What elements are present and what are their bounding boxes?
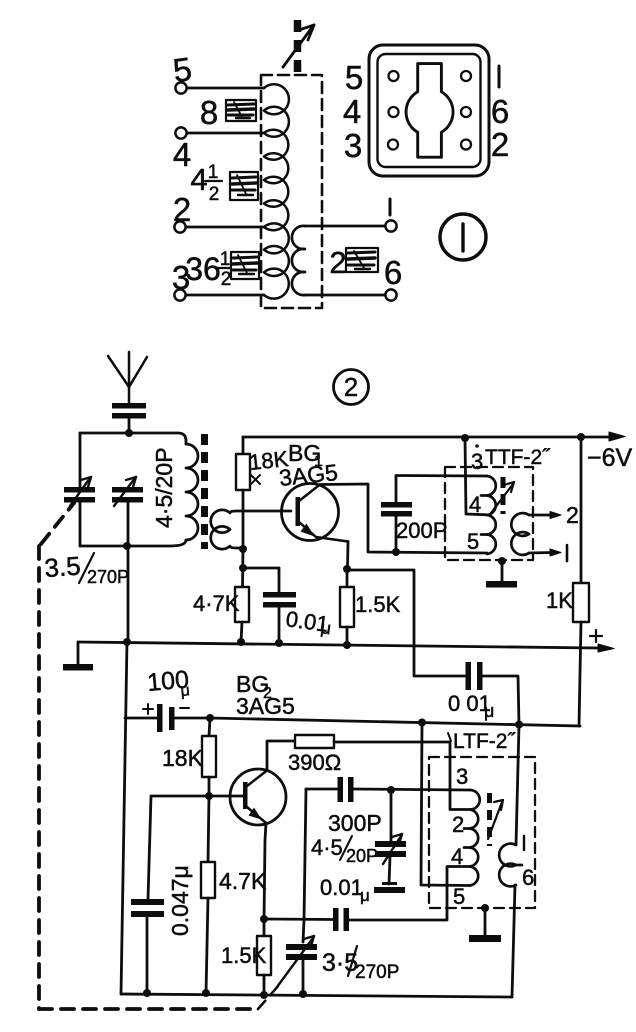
socket pin hole 5	[389, 71, 399, 81]
node 200P bottom / collector line	[392, 548, 400, 556]
polarity marks 100u	[143, 704, 189, 714]
svg-text:0.01: 0.01	[320, 875, 363, 900]
connector socket outer body	[369, 45, 489, 176]
LTF core dashed	[487, 793, 492, 846]
svg-text:270P: 270P	[355, 962, 399, 983]
winding count 8 turns	[200, 94, 218, 131]
svg-text:5: 5	[453, 884, 465, 909]
resistor 390 ohm	[295, 735, 334, 748]
variable capacitor 4.5/20P (gang a trimmer)	[112, 487, 143, 503]
label 4.7K (BG2)	[219, 868, 267, 894]
node secondary bottom to 18K	[239, 545, 247, 553]
svg-text:4·5: 4·5	[311, 835, 343, 860]
svg-text:2: 2	[209, 184, 220, 205]
label 3AG5 (BG2)	[236, 693, 295, 719]
figure number 1 circled	[440, 214, 486, 260]
node -6V to TTF	[461, 434, 469, 442]
label 2 (TTF tap)	[566, 502, 579, 528]
label TTF-2	[485, 446, 551, 469]
svg-text:1: 1	[208, 162, 219, 183]
arrow + line end	[598, 644, 614, 652]
label 3AG5 (BG1)	[278, 459, 339, 491]
wire terminal 3 to winding	[186, 294, 265, 297]
wire trimmer to tank bottom	[127, 502, 130, 641]
node 4.7K BG2 bottom	[202, 989, 210, 997]
svg-text:3: 3	[471, 449, 483, 474]
antenna	[108, 352, 147, 403]
svg-text:2: 2	[173, 191, 191, 228]
connector socket inner body	[378, 54, 481, 167]
adjustment arrow (fig1 top)	[283, 25, 314, 67]
label 100u	[146, 665, 190, 700]
label 300P	[328, 810, 382, 836]
transformer T secondary winding (fig1 pins 1-6)	[292, 226, 305, 295]
svg-text:4: 4	[173, 136, 191, 173]
wire BG1 collector to TTF	[320, 484, 487, 553]
label 18K	[248, 446, 290, 475]
label 4.7K (BG1)	[193, 591, 240, 616]
TTF secondary winding pins 2-1	[511, 513, 529, 555]
svg-text:2: 2	[491, 126, 509, 163]
label 1K	[546, 588, 573, 613]
variable capacitor 4.5/20P (gang b trimmer)	[390, 790, 393, 841]
label 3.5/270P	[43, 551, 129, 587]
winding count 36 1/2 turns	[185, 249, 233, 290]
svg-text:1.5K: 1.5K	[355, 592, 401, 617]
dashed gang linkage diagonal bottom	[258, 985, 279, 1009]
wire coupling cap to base line	[483, 676, 519, 725]
svg-text:270P: 270P	[87, 567, 129, 587]
node 0.047u bottom	[143, 989, 151, 997]
arrow of 3.5/270P gang a	[70, 477, 91, 506]
TTF primary winding pins 3-4-5	[481, 476, 496, 554]
capacitor series (emitter to LTF tap)	[333, 908, 349, 931]
svg-text:5: 5	[345, 59, 363, 96]
label pin2 LTF	[452, 812, 464, 837]
svg-text:−6V: −6V	[587, 444, 633, 472]
svg-text:1: 1	[220, 249, 231, 270]
svg-text:200P: 200P	[396, 518, 447, 543]
svg-text:18K: 18K	[162, 745, 204, 771]
wire terminal 5 to winding	[187, 87, 265, 90]
svg-text:6: 6	[384, 254, 402, 291]
svg-text:3.5: 3.5	[43, 551, 81, 583]
input transformer core dashed	[201, 434, 208, 549]
terminal 1	[385, 199, 396, 232]
wire tank box top	[80, 433, 186, 444]
capacitor 0.01u coupling BG1-BG2	[466, 662, 483, 690]
transformer T primary winding (fig1 pins 5-4-2-3)	[264, 84, 289, 298]
IF transformer LTF-2 shield dashed box	[429, 757, 535, 908]
capacitor 200P	[395, 476, 398, 552]
node TTF shield ground	[498, 557, 506, 565]
label 3.5/270P (b)	[322, 946, 399, 983]
node 100u to 18K BG2	[206, 714, 214, 722]
svg-text:3AG5: 3AG5	[236, 693, 295, 719]
node 300P line to trimmer	[387, 786, 395, 794]
svg-text:6: 6	[491, 93, 509, 130]
svg-text:4: 4	[469, 492, 481, 517]
label pin5 LTF	[453, 884, 465, 909]
node 4.7K bottom on ground rail	[237, 638, 245, 646]
terminal 2	[173, 191, 191, 233]
wire -6V rail	[243, 436, 609, 439]
node left vertical on ground rail	[123, 638, 131, 646]
dashed gang linkage left vertical	[37, 546, 41, 1009]
label pin4 TTF	[469, 492, 481, 517]
socket pin label 2	[491, 126, 509, 163]
transistor BG2	[209, 769, 286, 825]
label pin1 LTF	[523, 836, 525, 850]
wire BG2 emitter down	[264, 823, 266, 919]
resistor 1.5K (BG1 emitter)	[340, 569, 354, 645]
svg-text:300P: 300P	[328, 810, 382, 836]
svg-text:4.7K: 4.7K	[219, 868, 267, 894]
LTF adjust arrow	[488, 800, 503, 839]
label BG2	[236, 671, 272, 702]
node 1.5K bottom on ground rail	[343, 641, 351, 649]
label 0.01u coupling	[448, 691, 494, 721]
turns symbol blob for 2	[346, 248, 378, 272]
terminal 5	[171, 50, 194, 94]
figure number 2 circled	[334, 370, 369, 405]
wire antenna cap to tank node	[128, 418, 131, 433]
arrow of 4.5/20P trimmer a	[114, 477, 136, 506]
turns symbol blob for 8	[226, 100, 256, 121]
ground symbol left	[63, 642, 93, 671]
socket center key shape	[406, 64, 453, 158]
label 0.047u rotated	[167, 865, 193, 936]
svg-text:4: 4	[190, 162, 207, 197]
dashed gang linkage diagonal top	[41, 503, 74, 544]
label pin4 LTF	[451, 844, 463, 869]
wire BG1 emitter to coupling cap	[347, 570, 465, 676]
arrow of 4.5/20P trimmer b	[383, 834, 402, 864]
wire BG2 base bias line	[210, 718, 580, 726]
capacitor 300P	[303, 789, 338, 942]
wire 390 to LTF tap	[334, 742, 470, 810]
label LTF-2	[448, 730, 516, 753]
svg-text:2: 2	[329, 245, 346, 280]
svg-text:2: 2	[344, 372, 358, 402]
arrow -6V rail end	[609, 432, 625, 441]
svg-text:2: 2	[452, 812, 464, 837]
svg-text:2: 2	[566, 502, 579, 528]
arrow of 3.5/270P gang b	[277, 936, 314, 987]
wire tank box bottom	[80, 540, 186, 546]
turns symbol blob for 4 1/2	[230, 172, 258, 200]
wire LTF feed vertical from base line	[421, 723, 470, 886]
input transformer secondary winding	[211, 510, 291, 549]
label 4.5/20P (b)	[311, 835, 378, 866]
label 0.01u (third)	[320, 875, 370, 905]
wire 3.5/270P b bottom	[302, 958, 305, 994]
wire TTF secondary tap 1 with arrow	[529, 549, 561, 556]
svg-text:TTF-2˝: TTF-2˝	[485, 446, 551, 469]
node BG2 emitter	[260, 915, 268, 923]
label 18K (BG2)	[162, 745, 204, 771]
variable capacitor 3.5/270P (gang b)	[286, 944, 317, 960]
wire secondary to terminal 6	[305, 294, 386, 297]
socket pin label 3	[344, 127, 362, 164]
dashed gang linkage bottom horizontal	[39, 1007, 258, 1011]
wire ground rail (+ line)	[78, 642, 598, 648]
capacitor 0.047u	[147, 796, 209, 993]
terminal 6	[384, 254, 402, 301]
wire LTF secondary bottom to output rail	[512, 885, 515, 997]
resistor 18K (BG2)	[202, 718, 216, 796]
node base line coupling junction	[515, 721, 523, 729]
wire series cap to LTF tap	[349, 867, 470, 921]
node LTF shield ground	[481, 904, 489, 912]
variable capacitor 3.5/270P (gang a)	[64, 487, 95, 503]
transistor BG1	[282, 484, 349, 542]
wire TTF secondary tap 2 with arrow	[529, 512, 561, 519]
svg-text:1.5K: 1.5K	[221, 943, 267, 968]
wire LTF secondary top from coupling junction	[516, 725, 519, 845]
socket pin label 6	[491, 93, 509, 130]
label 1 (TTF tap)	[566, 545, 569, 561]
wire emitter line to series cap	[264, 918, 334, 921]
turns symbol blob for 36 1/2	[231, 252, 259, 279]
svg-text:μ: μ	[180, 682, 191, 700]
antenna coupling capacitor	[112, 403, 146, 419]
svg-text:390Ω: 390Ω	[288, 750, 341, 775]
LTF secondary winding pins 1-6	[499, 844, 522, 887]
svg-text:3: 3	[344, 127, 362, 164]
transformer T shield dashed box (fig1)	[261, 75, 322, 308]
wire bottom rail	[121, 994, 512, 997]
resistor 4.7K (BG1)	[235, 587, 249, 642]
node BG2 base	[205, 792, 213, 800]
svg-text:μ: μ	[360, 886, 370, 905]
node base line to LTF	[418, 719, 426, 727]
resistor 1K	[573, 433, 589, 726]
mark x below 18K	[251, 475, 260, 484]
socket pin hole 2	[461, 140, 471, 150]
node tank top	[125, 429, 133, 437]
terminal 3	[172, 259, 190, 301]
resistor 4.7K (BG2)	[201, 796, 215, 993]
electrolytic 100u	[125, 717, 210, 720]
node 3.5/270P b bottom	[299, 990, 307, 998]
socket pin label 5	[345, 59, 363, 96]
socket pin hole 3	[388, 140, 398, 150]
socket pin hole 6	[461, 107, 471, 117]
socket pin label 4	[343, 93, 361, 130]
label 4.5/20P rotated	[151, 447, 177, 528]
terminal 4	[173, 127, 191, 173]
label 0.01u (BG1)	[284, 606, 332, 638]
capacitor 0.01u (BG1 divider bypass)	[243, 568, 279, 642]
svg-text:LTF-2˝: LTF-2˝	[453, 730, 516, 753]
wire -6V down to TTF tap 4	[465, 438, 487, 515]
wire 200P top to TTF pin3	[396, 474, 487, 477]
svg-text:3: 3	[456, 764, 468, 789]
wire BG2 collector up	[267, 741, 295, 771]
input transformer primary winding	[186, 444, 198, 540]
TTF core dashed	[501, 477, 506, 514]
wire left vertical (ground to bottom)	[121, 641, 127, 994]
label + at battery line	[590, 630, 602, 642]
wire terminal 2 to winding	[186, 226, 265, 229]
socket pin label 1	[498, 66, 501, 87]
svg-text:36: 36	[185, 251, 221, 287]
wire 18K lower to divider node	[241, 549, 244, 587]
TTF adjust arrow	[491, 482, 514, 513]
svg-text:0.047μ: 0.047μ	[167, 865, 193, 936]
svg-text:4: 4	[451, 844, 463, 869]
svg-text:20P: 20P	[346, 846, 378, 866]
node 0.01u bottom on ground rail	[275, 639, 283, 647]
ground symbol TTF	[486, 561, 517, 588]
label 1.5K (BG1)	[355, 592, 401, 617]
label BG1	[288, 440, 323, 470]
label 1.5K (BG2)	[221, 943, 267, 968]
ground symbol LTF	[469, 908, 501, 942]
wire tank box left side upper	[79, 433, 82, 487]
node divider (18K/4.7K/0.01u)	[239, 564, 247, 572]
label -6V	[587, 444, 633, 472]
wire tank box left side lower	[79, 502, 82, 546]
socket pin hole 4	[389, 107, 399, 117]
label pin3 LTF	[456, 764, 468, 789]
svg-text:2: 2	[221, 269, 232, 290]
core adjust dashed line (fig1 top)	[294, 20, 302, 76]
node 1.5K BG2 bottom	[260, 991, 268, 999]
resistor 1.5K (BG2 emitter)	[257, 919, 271, 995]
svg-text:μ: μ	[484, 701, 494, 721]
svg-text:8: 8	[200, 94, 218, 131]
resistor 18K (BG1 base bias)	[236, 437, 250, 549]
label pin3 TTF	[471, 444, 483, 474]
label 390 ohm	[288, 750, 341, 775]
label pin5 TTF	[467, 529, 479, 554]
svg-text:4·7K: 4·7K	[193, 591, 240, 616]
socket pin hole 1	[461, 71, 471, 81]
LTF primary winding pins 3-2-4-5	[464, 790, 480, 886]
winding count 4 1/2 turns	[190, 162, 222, 205]
wire terminal 4 to winding	[187, 132, 265, 135]
svg-text:6: 6	[522, 865, 534, 890]
svg-text:4: 4	[343, 93, 361, 130]
IF transformer TTF-2 shield dashed box	[445, 467, 533, 560]
svg-text:4·5/20P: 4·5/20P	[151, 447, 177, 528]
capacitor 0.01u (to LTF)	[389, 857, 390, 884]
node BG1 emitter	[343, 565, 351, 573]
winding count 2 turns	[329, 245, 346, 280]
wire BG1 emitter down	[346, 542, 349, 570]
label 200P	[396, 518, 447, 543]
svg-text:1K: 1K	[546, 588, 573, 613]
wire 300P to LTF pin3	[354, 789, 471, 790]
svg-text:5: 5	[467, 529, 479, 554]
label pin6 LTF	[522, 865, 534, 890]
wire secondary to terminal 1	[305, 225, 386, 228]
node tank bottom	[123, 542, 131, 550]
